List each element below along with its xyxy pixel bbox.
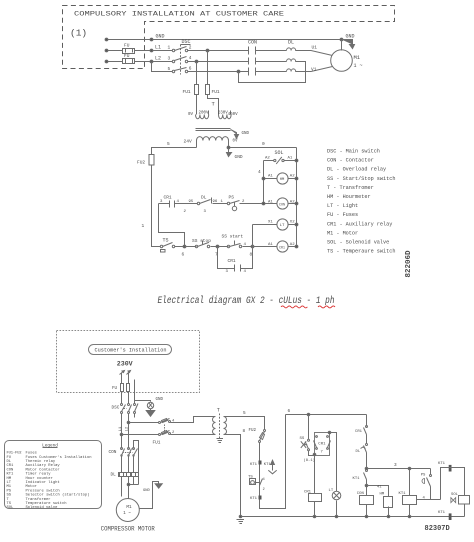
third pole loop top	[134, 441, 139, 485]
wire box to CR1 coil	[314, 455, 316, 494]
node bus gnd	[239, 515, 242, 518]
wire tap to FU1 upper	[129, 422, 159, 424]
wire supply N	[128, 373, 130, 384]
wire LT drop to node 8	[252, 225, 254, 247]
svg-text:SOL - Solenoid valve: SOL - Solenoid valve	[327, 240, 389, 246]
coil LT	[277, 219, 288, 230]
svg-text:A2: A2	[290, 243, 295, 247]
svg-text:(1): (1)	[70, 28, 87, 39]
svg-text:TS: TS	[248, 476, 253, 480]
node SS branch	[307, 413, 310, 416]
svg-text:82206D: 82206D	[405, 250, 413, 278]
svg-text:95: 95	[189, 200, 194, 204]
wire parallel loop rows 2-3	[239, 62, 306, 83]
svg-text:TS: TS	[163, 238, 169, 244]
svg-text:SS - Start/Stop switch: SS - Start/Stop switch	[327, 176, 396, 182]
svg-text:GND: GND	[346, 34, 355, 40]
transformer T bottom left winding	[213, 417, 216, 435]
svg-text:CON: CON	[248, 40, 257, 46]
svg-text:KT1: KT1	[399, 492, 407, 496]
svg-text:CR1: CR1	[228, 258, 236, 264]
svg-text:FU: FU	[124, 43, 130, 49]
svg-text:KT1: KT1	[264, 463, 272, 467]
wire 8 secondary bottom	[228, 435, 241, 517]
node wire 3	[365, 467, 368, 470]
node L2 to FU1	[195, 60, 198, 63]
svg-text:SOL: SOL	[451, 493, 459, 497]
svg-text:DL: DL	[288, 40, 294, 46]
secondary terminal 24V	[196, 141, 198, 148]
wire fuse to DSC L	[121, 392, 123, 404]
contactor CON pole 1	[249, 47, 287, 55]
node L1 start	[105, 49, 108, 52]
svg-text:FU2: FU2	[249, 429, 257, 433]
node tap L1	[120, 433, 123, 436]
wire tap to FU1 lower	[122, 434, 159, 436]
svg-text:A2: A2	[290, 200, 295, 204]
fuse FU bottom L	[121, 384, 124, 392]
relay CR1 box	[315, 433, 330, 456]
wire CON coil row	[159, 203, 297, 205]
coil CR1 bottom	[309, 494, 322, 502]
contactor CON pole 2	[249, 58, 287, 65]
svg-text:96: 96	[213, 200, 218, 204]
svg-text:GND: GND	[235, 154, 243, 160]
svg-text:LT - Light: LT - Light	[327, 203, 358, 209]
svg-text:SS: SS	[300, 437, 305, 441]
wire PE	[135, 380, 151, 405]
svg-text:6: 6	[288, 409, 291, 414]
switch DSC pole 1	[172, 49, 174, 51]
switch TS	[160, 245, 162, 247]
contactor CON bottom pole 1	[121, 448, 123, 450]
contactor CON pole 3	[249, 68, 287, 76]
switch SS start	[227, 245, 229, 247]
svg-text:5: 5	[243, 411, 246, 416]
motor M1 bottom	[116, 499, 139, 522]
svg-text:KT1: KT1	[438, 462, 446, 466]
node 7	[216, 245, 219, 248]
svg-text:KT1: KT1	[353, 477, 361, 481]
SS branch wire	[308, 415, 310, 440]
svg-text:41: 41	[377, 486, 382, 490]
thermostat TS bottom	[250, 479, 256, 485]
transformer T secondary winding	[197, 137, 229, 141]
wire FU1 right to 230V tap	[208, 95, 219, 115]
fuse FU (L1)	[123, 49, 135, 54]
customer installation dashed box	[57, 331, 200, 393]
CR1 box right contact	[327, 436, 329, 438]
overload DL element 1	[287, 48, 303, 51]
KT1 delay arrow	[271, 460, 275, 470]
node GND bus start	[105, 38, 108, 41]
legend title underline	[43, 447, 58, 449]
node 6	[183, 245, 186, 248]
wire HM tap	[367, 486, 389, 497]
svg-text:Legend: Legend	[42, 444, 58, 449]
coil KT1 bottom	[403, 496, 417, 505]
wire drop L2 to FU1 left	[196, 62, 198, 85]
coil CON	[277, 198, 288, 209]
svg-text:5: 5	[167, 141, 170, 147]
svg-text:CON - Contactor: CON - Contactor	[327, 158, 374, 164]
svg-text:CR1: CR1	[164, 194, 172, 200]
svg-text:CON: CON	[279, 204, 285, 208]
node 8	[251, 245, 254, 248]
svg-text:LT: LT	[329, 489, 334, 493]
svg-text:2: 2	[189, 45, 192, 51]
svg-text:FU1: FU1	[153, 441, 161, 446]
svg-text:HM - Hourmeter: HM - Hourmeter	[327, 194, 371, 200]
right rail from bus	[366, 415, 368, 427]
fuse FU1 left	[195, 85, 199, 95]
svg-text:U1: U1	[312, 45, 318, 51]
node bus LT	[335, 515, 338, 518]
DSC mechanical link	[180, 45, 182, 75]
svg-text:4: 4	[258, 169, 261, 175]
customer installation oval	[89, 345, 172, 355]
svg-text:3: 3	[394, 463, 397, 468]
lamp LT bottom	[332, 491, 341, 500]
svg-text:GND: GND	[156, 34, 165, 40]
fuse FU (L2)	[123, 59, 135, 64]
wire HM row	[264, 178, 297, 180]
wire 4 riser to SOL feed	[441, 468, 465, 500]
wire DSC to CON N	[128, 414, 130, 449]
node secondary 0V	[227, 146, 230, 149]
svg-text:6: 6	[189, 66, 192, 72]
left sub rail SOL/HM	[263, 161, 265, 204]
contact CR1 latch	[235, 265, 241, 272]
wire 0V bus	[229, 147, 297, 149]
wire V1 to motor	[303, 67, 333, 72]
node bus HM	[387, 515, 390, 518]
svg-text:KT1: KT1	[438, 511, 446, 515]
svg-text:A1: A1	[268, 243, 273, 247]
svg-text:Customer's Installation: Customer's Installation	[95, 347, 167, 354]
svg-text:CR1: CR1	[279, 245, 285, 249]
svg-text:A1: A1	[288, 157, 293, 161]
supply arrow L	[120, 371, 125, 375]
node L2 start	[105, 60, 108, 63]
node L1 to FU1	[206, 49, 209, 52]
transformer T primary winding A	[196, 115, 209, 119]
svg-text:FU1: FU1	[183, 89, 191, 95]
transformer T 200V tap stub	[208, 111, 210, 115]
latch branch CR1	[218, 247, 253, 269]
spellcheck wave 1 ph	[318, 306, 335, 308]
svg-text:FU - Fuses: FU - Fuses	[327, 212, 358, 218]
svg-text:PS: PS	[229, 194, 235, 200]
contactor CON bottom pole 2	[128, 448, 130, 450]
wire drop L1 to FU1 right	[207, 51, 209, 85]
svg-text:DSC: DSC	[112, 406, 120, 411]
wire CON to DL x3	[122, 457, 134, 473]
node CON coil right	[295, 202, 298, 205]
svg-text:L1: L1	[119, 426, 123, 431]
wire GND bus	[107, 39, 342, 41]
wire to SS stop	[185, 246, 197, 248]
svg-text:2: 2	[263, 488, 265, 492]
svg-text:0: 0	[262, 141, 265, 147]
CR1 box left contact	[316, 436, 318, 438]
svg-text:DL: DL	[201, 194, 207, 200]
node KT1 coil branch	[408, 467, 411, 470]
ground bottom bus	[237, 520, 245, 524]
svg-text:DSC: DSC	[182, 39, 191, 45]
wire DL to motor L	[121, 477, 123, 497]
svg-text:CR1: CR1	[355, 430, 363, 434]
svg-text:FU2: FU2	[137, 160, 145, 166]
node GND boundary	[150, 38, 153, 41]
CON bottom link	[123, 452, 133, 454]
switch DSC pole 3	[172, 70, 174, 72]
svg-text:GND: GND	[156, 398, 164, 402]
wire DSC to CON L	[121, 414, 123, 449]
node bus KT1	[408, 515, 411, 518]
svg-text:DL: DL	[111, 472, 117, 477]
svg-text:KT1: KT1	[250, 497, 258, 501]
node SOL right	[295, 159, 298, 162]
spellcheck wave cULus	[281, 306, 307, 308]
node bus CR1	[313, 515, 316, 518]
wire SOL row	[264, 160, 274, 162]
svg-text:T - Transfromer: T - Transfromer	[327, 185, 374, 191]
ground at 0V	[227, 148, 232, 157]
node third pole loop	[237, 70, 240, 73]
svg-text:V1: V1	[311, 67, 317, 73]
node CON coil left	[262, 202, 265, 205]
wire CON row drop to TS node	[159, 204, 185, 247]
wire KT1 coil top	[409, 469, 411, 496]
overload DL element 3	[287, 69, 303, 72]
svg-text:T: T	[217, 408, 220, 414]
customer installation dashed boundary	[63, 6, 395, 69]
transformer T bottom core	[219, 414, 221, 437]
wire third pole feed	[152, 62, 249, 72]
coil CR1	[277, 241, 288, 252]
wire supply L	[121, 373, 123, 384]
node loop mid	[127, 483, 130, 486]
svg-text:Electrical diagram GX 2 - cULu: Electrical diagram GX 2 - cULus - 1 ph	[158, 295, 335, 307]
svg-text:1: 1	[142, 223, 145, 229]
switch DSC bottom pole PE	[134, 404, 136, 406]
svg-text:M1: M1	[354, 54, 361, 61]
fuse switch FU1 lower	[159, 434, 161, 436]
svg-text:M1 - Motor: M1 - Motor	[327, 230, 358, 236]
wire L2	[107, 61, 249, 63]
svg-text:L2: L2	[155, 55, 161, 61]
svg-text:SS stop: SS stop	[192, 238, 211, 244]
node L1 boundary	[150, 49, 153, 52]
svg-text:L2: L2	[126, 426, 130, 431]
svg-text:LT: LT	[280, 224, 285, 228]
FU1 link	[164, 425, 166, 433]
wire CR1 box to LT	[330, 433, 337, 492]
motor ground symbol	[155, 484, 162, 488]
transformer T bottom right winding	[224, 417, 227, 435]
switch PS (1-2)	[227, 202, 229, 204]
svg-text:TS - Temperaure switch: TS - Temperaure switch	[327, 249, 396, 255]
svg-text:6: 6	[182, 252, 185, 258]
node HM left	[262, 177, 265, 180]
svg-text:1: 1	[168, 45, 171, 51]
left rail FU2 to TS	[152, 171, 161, 247]
svg-text:A1: A1	[268, 200, 273, 204]
earth electrode symbol	[147, 402, 153, 408]
svg-text:Solenoid valve: Solenoid valve	[26, 505, 59, 510]
svg-text:X1: X1	[268, 221, 273, 225]
svg-text:CR1: CR1	[304, 491, 312, 495]
svg-text:A2: A2	[265, 157, 270, 161]
overload DL bottom block	[119, 473, 139, 477]
switch DSC bottom pole L	[121, 404, 123, 406]
contact DL (95-96)	[197, 202, 199, 204]
fuse FU2	[149, 155, 154, 166]
svg-text:8: 8	[243, 429, 246, 434]
svg-text:SOL: SOL	[275, 150, 284, 156]
svg-text:200V: 200V	[199, 112, 210, 116]
svg-text:7: 7	[321, 451, 323, 455]
node CR1 coil right	[295, 245, 298, 248]
switch PS bottom	[430, 469, 432, 475]
svg-text:COMPULSORY INSTALLATION AT CUS: COMPULSORY INSTALLATION AT CUSTOMER CARE	[74, 10, 284, 17]
transformer T 460V tap stub	[230, 111, 232, 115]
svg-text:DSC - Main switch: DSC - Main switch	[327, 149, 380, 155]
svg-text:8: 8	[250, 252, 253, 258]
core ground wire	[231, 130, 239, 139]
wire 5 secondary top	[228, 417, 265, 430]
earth electrode arrow	[146, 409, 155, 417]
svg-text:SS start: SS start	[222, 234, 244, 240]
switch DSC bottom pole N	[128, 404, 130, 406]
node CR1 box out	[328, 431, 331, 434]
wire L1	[107, 50, 249, 52]
solenoid SOL	[274, 159, 276, 161]
node L2 boundary	[150, 60, 153, 63]
secondary terminal 0V	[228, 141, 230, 148]
contact SS in branch	[308, 439, 310, 441]
svg-text:M1: M1	[126, 505, 132, 510]
svg-text:FU: FU	[124, 53, 130, 59]
svg-text:0V: 0V	[233, 140, 239, 144]
wire fuse to DSC N	[128, 392, 130, 404]
contact KT1 sol bottom	[449, 513, 452, 520]
node HM tap	[365, 484, 368, 487]
ground symbol at motor	[342, 40, 355, 49]
fuse switch FU1 upper	[159, 422, 161, 424]
svg-text:FU: FU	[112, 387, 118, 391]
svg-text:A1: A1	[268, 175, 273, 179]
fuse FU1 right	[206, 85, 210, 95]
svg-text:CR1 - Auxiliary relay: CR1 - Auxiliary relay	[327, 221, 392, 227]
svg-text:DL: DL	[356, 450, 361, 454]
node HM right	[295, 177, 298, 180]
contact KT1 sol top	[449, 465, 452, 472]
overload DL element 2	[287, 59, 299, 62]
wire FU1 left to 0V tap	[196, 95, 198, 115]
svg-text:4: 4	[189, 55, 192, 61]
svg-text:GND: GND	[242, 132, 250, 136]
svg-text:KT1: KT1	[250, 463, 258, 467]
svg-text:4: 4	[263, 478, 265, 482]
selector SS symbol	[301, 441, 307, 448]
svg-text:1 ~: 1 ~	[354, 63, 363, 69]
contact DL right rail	[366, 444, 368, 446]
svg-text:0V: 0V	[188, 113, 194, 117]
node bus CON	[365, 515, 368, 518]
node LT right	[295, 223, 298, 226]
svg-text:FU1: FU1	[212, 89, 220, 95]
wire 3	[367, 468, 431, 470]
svg-text:SOL: SOL	[7, 506, 15, 510]
contact KT1 upper	[259, 461, 262, 465]
contactor CON bottom pole 3	[133, 448, 135, 450]
fuse switch FU2	[264, 430, 266, 432]
left control rail	[260, 415, 286, 509]
wire U1 to motor	[303, 51, 333, 56]
bus 6	[286, 414, 367, 416]
wire to SS start	[218, 246, 229, 248]
wire 4	[417, 499, 441, 501]
DSC bottom link	[124, 408, 127, 410]
hourmeter HM bottom	[384, 497, 393, 508]
contact KT1a right rail	[366, 470, 368, 472]
supply arrow N	[127, 371, 131, 375]
svg-text:PS: PS	[421, 473, 426, 477]
motor M1	[331, 50, 353, 72]
svg-text:HM: HM	[380, 493, 385, 497]
contact CR1 (3-4)	[170, 201, 175, 208]
wire DL to motor mid	[128, 477, 130, 500]
transformer core	[196, 129, 231, 131]
node GND at motor	[340, 38, 343, 41]
switch DSC pole 2	[172, 60, 174, 62]
wire LT row	[253, 224, 297, 226]
coil CON bottom	[360, 496, 374, 505]
fuse FU bottom N	[127, 384, 130, 392]
svg-text:24V: 24V	[184, 139, 193, 145]
svg-text:A2: A2	[290, 175, 295, 179]
transformer core ground	[217, 437, 224, 443]
svg-text:(8-1): (8-1)	[304, 458, 315, 463]
svg-text:82307D: 82307D	[425, 525, 450, 533]
contact CR1 right rail	[366, 426, 368, 428]
svg-text:CR1: CR1	[318, 442, 326, 446]
svg-text:5: 5	[168, 66, 171, 72]
wire third pole loop bottom	[129, 477, 139, 485]
switch SS stop	[195, 245, 197, 247]
svg-text:7: 7	[215, 252, 218, 258]
transformer T primary winding B	[219, 115, 232, 119]
svg-text:GND: GND	[143, 489, 151, 493]
svg-text:HM: HM	[280, 178, 285, 182]
svg-text:X2: X2	[290, 221, 295, 225]
legend box bottom	[5, 441, 102, 509]
wire 24V bus	[152, 148, 197, 155]
svg-text:CON: CON	[357, 492, 365, 496]
contact KT1 lower	[259, 496, 262, 500]
svg-text:3: 3	[168, 55, 171, 61]
bottom bus	[241, 516, 465, 518]
svg-text:460V: 460V	[228, 113, 239, 117]
svg-text:CON: CON	[109, 450, 117, 455]
svg-text:230V: 230V	[117, 361, 133, 368]
node CR1 box bottom	[313, 453, 316, 456]
wire motor to GND bus	[341, 40, 343, 51]
svg-text:1 ~: 1 ~	[123, 512, 131, 516]
solenoid SOL bottom	[459, 496, 470, 505]
